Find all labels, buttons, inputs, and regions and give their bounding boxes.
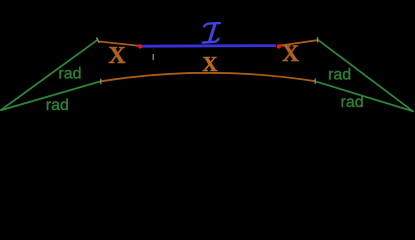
svg-text:X: X xyxy=(108,43,126,69)
svg-text:rad: rad xyxy=(46,97,69,114)
svg-text:rad: rad xyxy=(328,66,351,83)
svg-text:X: X xyxy=(202,52,217,76)
svg-text:rad: rad xyxy=(341,94,364,111)
svg-text:X: X xyxy=(282,41,299,67)
svg-text:rad: rad xyxy=(58,66,81,83)
